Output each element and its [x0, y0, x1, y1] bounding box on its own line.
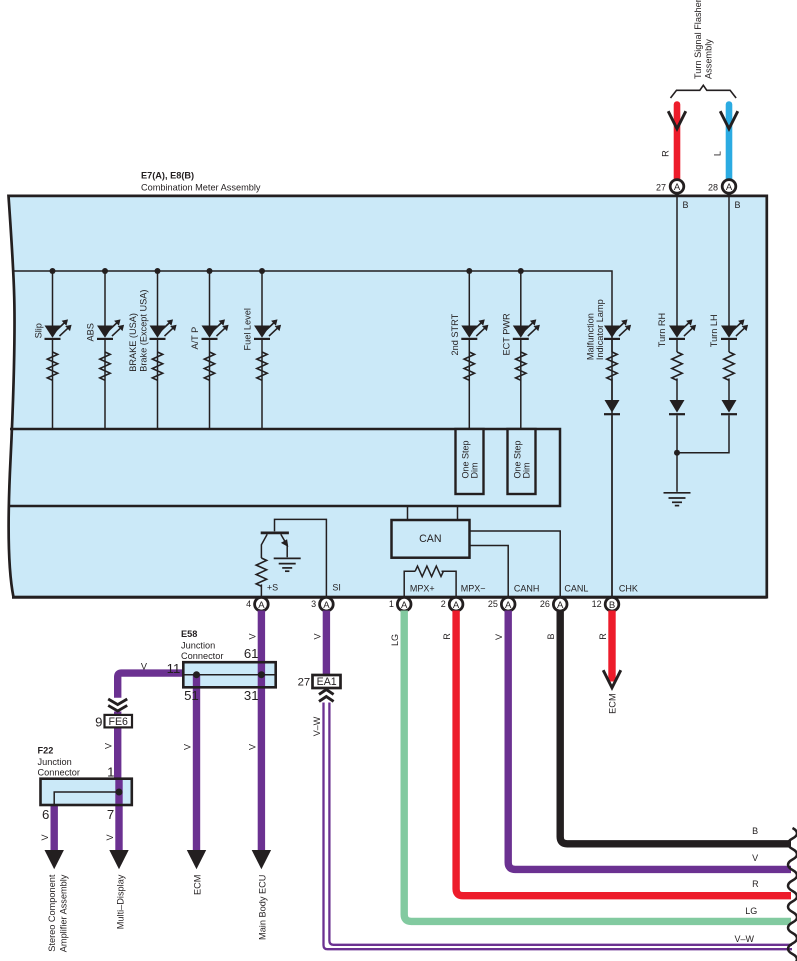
svg-text:27: 27: [298, 677, 311, 689]
svg-text:B: B: [752, 826, 758, 836]
svg-text:25: 25: [488, 599, 498, 609]
svg-text:V: V: [247, 744, 257, 750]
svg-text:2: 2: [441, 599, 446, 609]
svg-text:V–W: V–W: [312, 716, 322, 736]
svg-text:CAN: CAN: [419, 533, 441, 545]
svg-text:Dim: Dim: [470, 463, 480, 479]
svg-text:B: B: [546, 633, 556, 639]
svg-text:V: V: [40, 834, 50, 840]
svg-text:A: A: [557, 600, 564, 611]
svg-text:B: B: [735, 200, 741, 210]
svg-text:EA1: EA1: [317, 676, 337, 688]
svg-text:Turn RH: Turn RH: [657, 313, 667, 347]
svg-text:4: 4: [246, 599, 251, 609]
svg-text:MPX+: MPX+: [410, 583, 435, 593]
svg-text:Connector: Connector: [38, 768, 80, 778]
svg-text:Amplifier Assembly: Amplifier Assembly: [59, 874, 69, 952]
svg-text:1: 1: [107, 764, 114, 779]
svg-text:ABS: ABS: [86, 323, 96, 341]
svg-text:A/T P: A/T P: [190, 327, 200, 350]
svg-text:51: 51: [184, 688, 199, 703]
svg-text:E58: E58: [181, 629, 197, 639]
svg-text:LG: LG: [390, 634, 400, 646]
svg-text:A: A: [726, 182, 733, 193]
svg-text:A: A: [323, 600, 330, 611]
svg-text:SI: SI: [332, 583, 341, 593]
svg-text:MPX−: MPX−: [461, 583, 486, 593]
svg-text:V: V: [141, 662, 148, 672]
svg-text:Brake (Except USA): Brake (Except USA): [138, 290, 148, 372]
svg-text:Stereo Component: Stereo Component: [47, 874, 57, 952]
svg-text:V: V: [183, 744, 193, 750]
svg-text:V: V: [247, 633, 257, 639]
svg-text:26: 26: [540, 599, 550, 609]
svg-text:Junction: Junction: [181, 641, 215, 651]
svg-text:Combination Meter Assembly: Combination Meter Assembly: [141, 183, 261, 193]
svg-text:LG: LG: [745, 906, 757, 916]
svg-text:R: R: [598, 633, 608, 640]
svg-text:ECM: ECM: [193, 875, 203, 895]
svg-text:Multi–Display: Multi–Display: [116, 874, 126, 929]
svg-text:R: R: [442, 633, 452, 640]
svg-text:12: 12: [592, 599, 602, 609]
svg-text:B: B: [683, 200, 689, 210]
svg-text:Assembly: Assembly: [703, 39, 713, 79]
svg-text:31: 31: [244, 688, 259, 703]
svg-text:3: 3: [311, 599, 316, 609]
svg-text:Slip: Slip: [33, 323, 43, 338]
svg-text:A: A: [401, 600, 408, 611]
svg-text:Indicator Lamp: Indicator Lamp: [595, 299, 605, 360]
svg-text:2nd STRT: 2nd STRT: [450, 313, 460, 355]
svg-text:Turn LH: Turn LH: [709, 314, 719, 347]
svg-text:CANH: CANH: [514, 583, 540, 593]
svg-text:Fuel Level: Fuel Level: [243, 308, 253, 350]
svg-text:Main Body ECU: Main Body ECU: [258, 875, 268, 940]
svg-text:V–W: V–W: [735, 934, 755, 944]
svg-text:F22: F22: [38, 746, 54, 756]
svg-text:CHK: CHK: [619, 583, 638, 593]
svg-text:+S: +S: [267, 583, 278, 593]
svg-text:L: L: [713, 151, 723, 156]
svg-text:CANL: CANL: [564, 583, 588, 593]
svg-text:R: R: [661, 150, 671, 157]
svg-text:11: 11: [167, 661, 181, 676]
svg-text:V: V: [312, 633, 322, 639]
svg-text:7: 7: [107, 807, 114, 822]
svg-text:A: A: [505, 600, 512, 611]
svg-text:Dim: Dim: [522, 463, 532, 479]
svg-text:27: 27: [656, 182, 666, 192]
svg-text:BRAKE (USA): BRAKE (USA): [128, 313, 138, 372]
svg-text:9: 9: [95, 715, 102, 730]
svg-text:V: V: [494, 634, 504, 640]
svg-text:28: 28: [708, 182, 718, 192]
svg-text:V: V: [104, 743, 114, 749]
svg-text:E7(A), E8(B): E7(A), E8(B): [141, 171, 194, 181]
svg-text:A: A: [674, 182, 681, 193]
svg-text:R: R: [752, 879, 759, 889]
svg-text:ECM: ECM: [608, 693, 618, 713]
svg-text:B: B: [609, 600, 615, 611]
svg-text:V: V: [752, 853, 758, 863]
svg-text:6: 6: [42, 807, 49, 822]
svg-text:A: A: [258, 600, 265, 611]
svg-text:Turn Signal Flasher: Turn Signal Flasher: [693, 0, 703, 79]
svg-text:A: A: [453, 600, 460, 611]
svg-text:FE6: FE6: [108, 716, 128, 728]
svg-text:61: 61: [244, 646, 259, 661]
svg-text:V: V: [105, 834, 115, 840]
svg-text:ECT PWR: ECT PWR: [501, 313, 511, 356]
svg-text:Connector: Connector: [181, 651, 223, 661]
svg-text:1: 1: [389, 599, 394, 609]
svg-text:Junction: Junction: [38, 757, 72, 767]
